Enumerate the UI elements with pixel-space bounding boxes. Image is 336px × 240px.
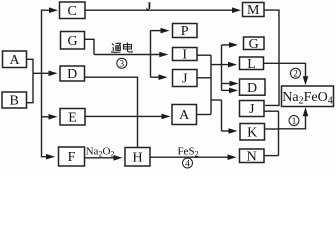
box N	[240, 149, 265, 163]
svg-text:A: A	[9, 53, 20, 68]
svg-text:D: D	[67, 67, 77, 82]
arrow into K	[229, 128, 238, 134]
svg-text:C: C	[68, 4, 77, 19]
wire V2 upper vertical	[221, 45, 223, 90]
circled 3	[117, 58, 127, 69]
box J right	[240, 101, 265, 117]
wire F to H (Na2O2)	[85, 157, 121, 159]
wire J mid out to V1	[197, 77, 211, 79]
svg-text:G: G	[67, 34, 77, 49]
wire E to A2	[85, 115, 168, 117]
arrow into J mid	[159, 74, 168, 80]
box L	[240, 57, 264, 70]
svg-text:E: E	[68, 110, 77, 125]
box K	[240, 124, 265, 141]
box F	[59, 147, 85, 166]
wire arrow2 to D right	[222, 89, 236, 91]
svg-text:D: D	[247, 81, 257, 96]
box G mid	[61, 32, 85, 50]
label tongdian (Chinese: electrify) drawn strokes	[111, 43, 132, 53]
wire V1 vertical	[210, 55, 212, 114]
arrow into L	[228, 62, 237, 68]
box E	[60, 109, 85, 126]
wire branch arrow to J mid	[151, 76, 165, 78]
box P	[173, 24, 198, 38]
wire I out to V1	[197, 54, 211, 56]
svg-text:4: 4	[185, 159, 190, 169]
wire arrow1 to D right	[222, 83, 236, 85]
wire A2 out to V1	[197, 114, 212, 116]
char tong	[112, 44, 114, 46]
wire branch arrow to P	[151, 30, 167, 32]
arrow into G right	[229, 42, 238, 48]
svg-text:K: K	[247, 125, 257, 140]
circled 2	[291, 68, 301, 79]
box D mid	[60, 66, 85, 81]
svg-text:N: N	[247, 149, 257, 164]
wire L out circled2 line down to Na2FeO4	[264, 63, 306, 82]
arrow into D mid	[49, 71, 58, 77]
box letters	[9, 3, 260, 165]
svg-text:Na2FeO4: Na2FeO4	[282, 90, 332, 107]
wire V2 lower vertical	[221, 100, 223, 131]
arrow up into Na2FeO4 (circled 1)	[303, 107, 309, 116]
circled 4	[183, 158, 193, 169]
box A mid	[172, 105, 197, 125]
wire H to N (FeS2)	[150, 156, 234, 158]
arrow into A2	[162, 114, 171, 120]
wire A to merge	[27, 59, 34, 102]
box J mid	[173, 70, 198, 87]
wire A+B arrow to D	[33, 72, 56, 74]
svg-text:A: A	[179, 108, 190, 123]
svg-text:J: J	[146, 1, 152, 13]
box H	[125, 148, 150, 167]
box D right	[240, 79, 266, 95]
svg-text:L: L	[247, 57, 256, 72]
svg-text:G: G	[249, 37, 259, 52]
wire electrolysis branch vertical	[150, 31, 152, 78]
svg-text:H: H	[132, 150, 142, 165]
arrow into M	[232, 7, 241, 13]
wire merge vertical J/K/N	[278, 111, 280, 155]
wire M down into J right	[264, 10, 279, 105]
circled 1	[289, 116, 299, 127]
svg-text:J: J	[182, 72, 188, 87]
wire arrow to G right	[222, 44, 236, 46]
arrowheads	[46, 7, 308, 160]
wire trunk A/B to C,E,F	[42, 10, 56, 157]
wire G stub to electrolysis line	[85, 39, 95, 54]
box G right	[244, 37, 265, 50]
svg-text:M: M	[247, 3, 260, 18]
char dian	[127, 43, 129, 50]
svg-text:1: 1	[292, 117, 297, 127]
wire electrolysis line to I	[94, 54, 165, 56]
arrow into P	[161, 28, 170, 34]
svg-text:B: B	[10, 94, 19, 109]
arrow into H	[114, 155, 123, 161]
wire V1 to V2 stub	[211, 99, 222, 101]
arrow into N	[228, 154, 237, 160]
box B	[2, 92, 27, 108]
wire K out	[265, 128, 279, 130]
svg-text:F: F	[68, 150, 76, 165]
svg-text:J: J	[249, 102, 255, 117]
box C	[60, 2, 86, 19]
box A left	[3, 51, 27, 68]
wire connector arrow to L	[211, 64, 234, 66]
svg-text:2: 2	[293, 70, 298, 80]
boxes	[2, 2, 334, 166]
wire J right out	[264, 110, 279, 112]
arrow into E	[49, 114, 58, 120]
svg-text:3: 3	[119, 60, 124, 70]
arrow down into Na2FeO4 (circled 2)	[303, 76, 309, 85]
arrow into I	[159, 52, 168, 58]
wire arrow to K	[222, 130, 235, 132]
arrow into C	[49, 7, 58, 13]
wire N out	[264, 155, 279, 157]
box Na2FeO4	[282, 86, 334, 107]
svg-text:I: I	[182, 48, 187, 63]
wire C to M with J label	[85, 9, 238, 11]
arrow1 into D right	[230, 81, 239, 87]
svg-text:P: P	[181, 24, 189, 39]
box M	[243, 3, 265, 17]
arrow into F	[46, 154, 55, 160]
wire circled1 line up to Na2FeO4	[279, 110, 306, 129]
box I	[173, 48, 198, 61]
wire trunk arrow to E	[42, 116, 55, 118]
wire D down to H	[85, 77, 138, 147]
arrow2 into D right	[229, 88, 238, 94]
